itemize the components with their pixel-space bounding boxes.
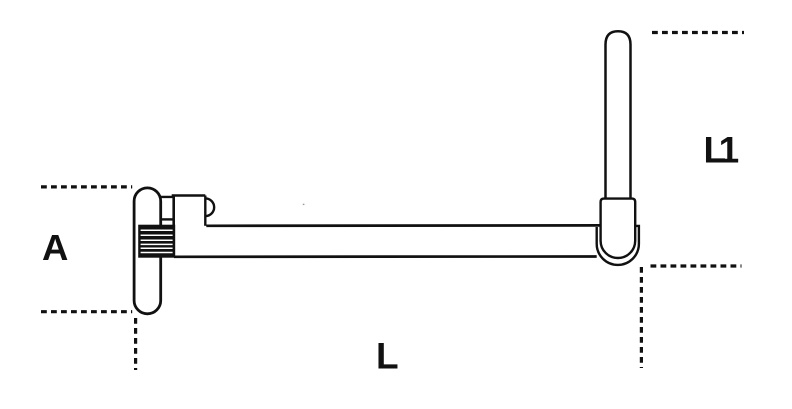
dimension dashed line A top bbox=[41, 185, 132, 188]
knurl stripe 6 bbox=[141, 252, 173, 254]
extension dashed line left vertical bbox=[134, 318, 137, 370]
knurled adjusting nut bbox=[138, 225, 175, 258]
head lower connector line bbox=[160, 218, 174, 220]
svg-text:L: L bbox=[376, 335, 399, 376]
svg-text:A: A bbox=[42, 227, 68, 268]
head block right edge bbox=[204, 196, 206, 226]
arm top edge bbox=[206, 224, 601, 227]
knurl stripe 2 bbox=[141, 234, 173, 236]
knurl stripe 4 bbox=[141, 243, 173, 245]
dimension dashed line L1 bottom bbox=[651, 264, 742, 267]
strap U around collar bbox=[597, 226, 639, 265]
head block left edge bbox=[172, 196, 175, 258]
knurl stripe 3 bbox=[141, 239, 173, 241]
arm bottom edge bbox=[174, 255, 597, 258]
extension dashed line right vertical bbox=[640, 267, 643, 368]
dimension dashed line A bottom bbox=[41, 310, 132, 313]
knurl stripe 1 bbox=[141, 229, 173, 231]
knurl stripe 5 bbox=[141, 247, 173, 249]
scan speckle dot bbox=[303, 204, 305, 205]
pivot collar bbox=[601, 199, 636, 258]
pivot bump arc bbox=[205, 198, 214, 216]
pin capsule right bbox=[606, 31, 631, 212]
head block top edge with step bbox=[160, 196, 205, 197]
dimension dashed line L1 top bbox=[652, 31, 744, 34]
swivel handle capsule left bbox=[134, 188, 161, 314]
